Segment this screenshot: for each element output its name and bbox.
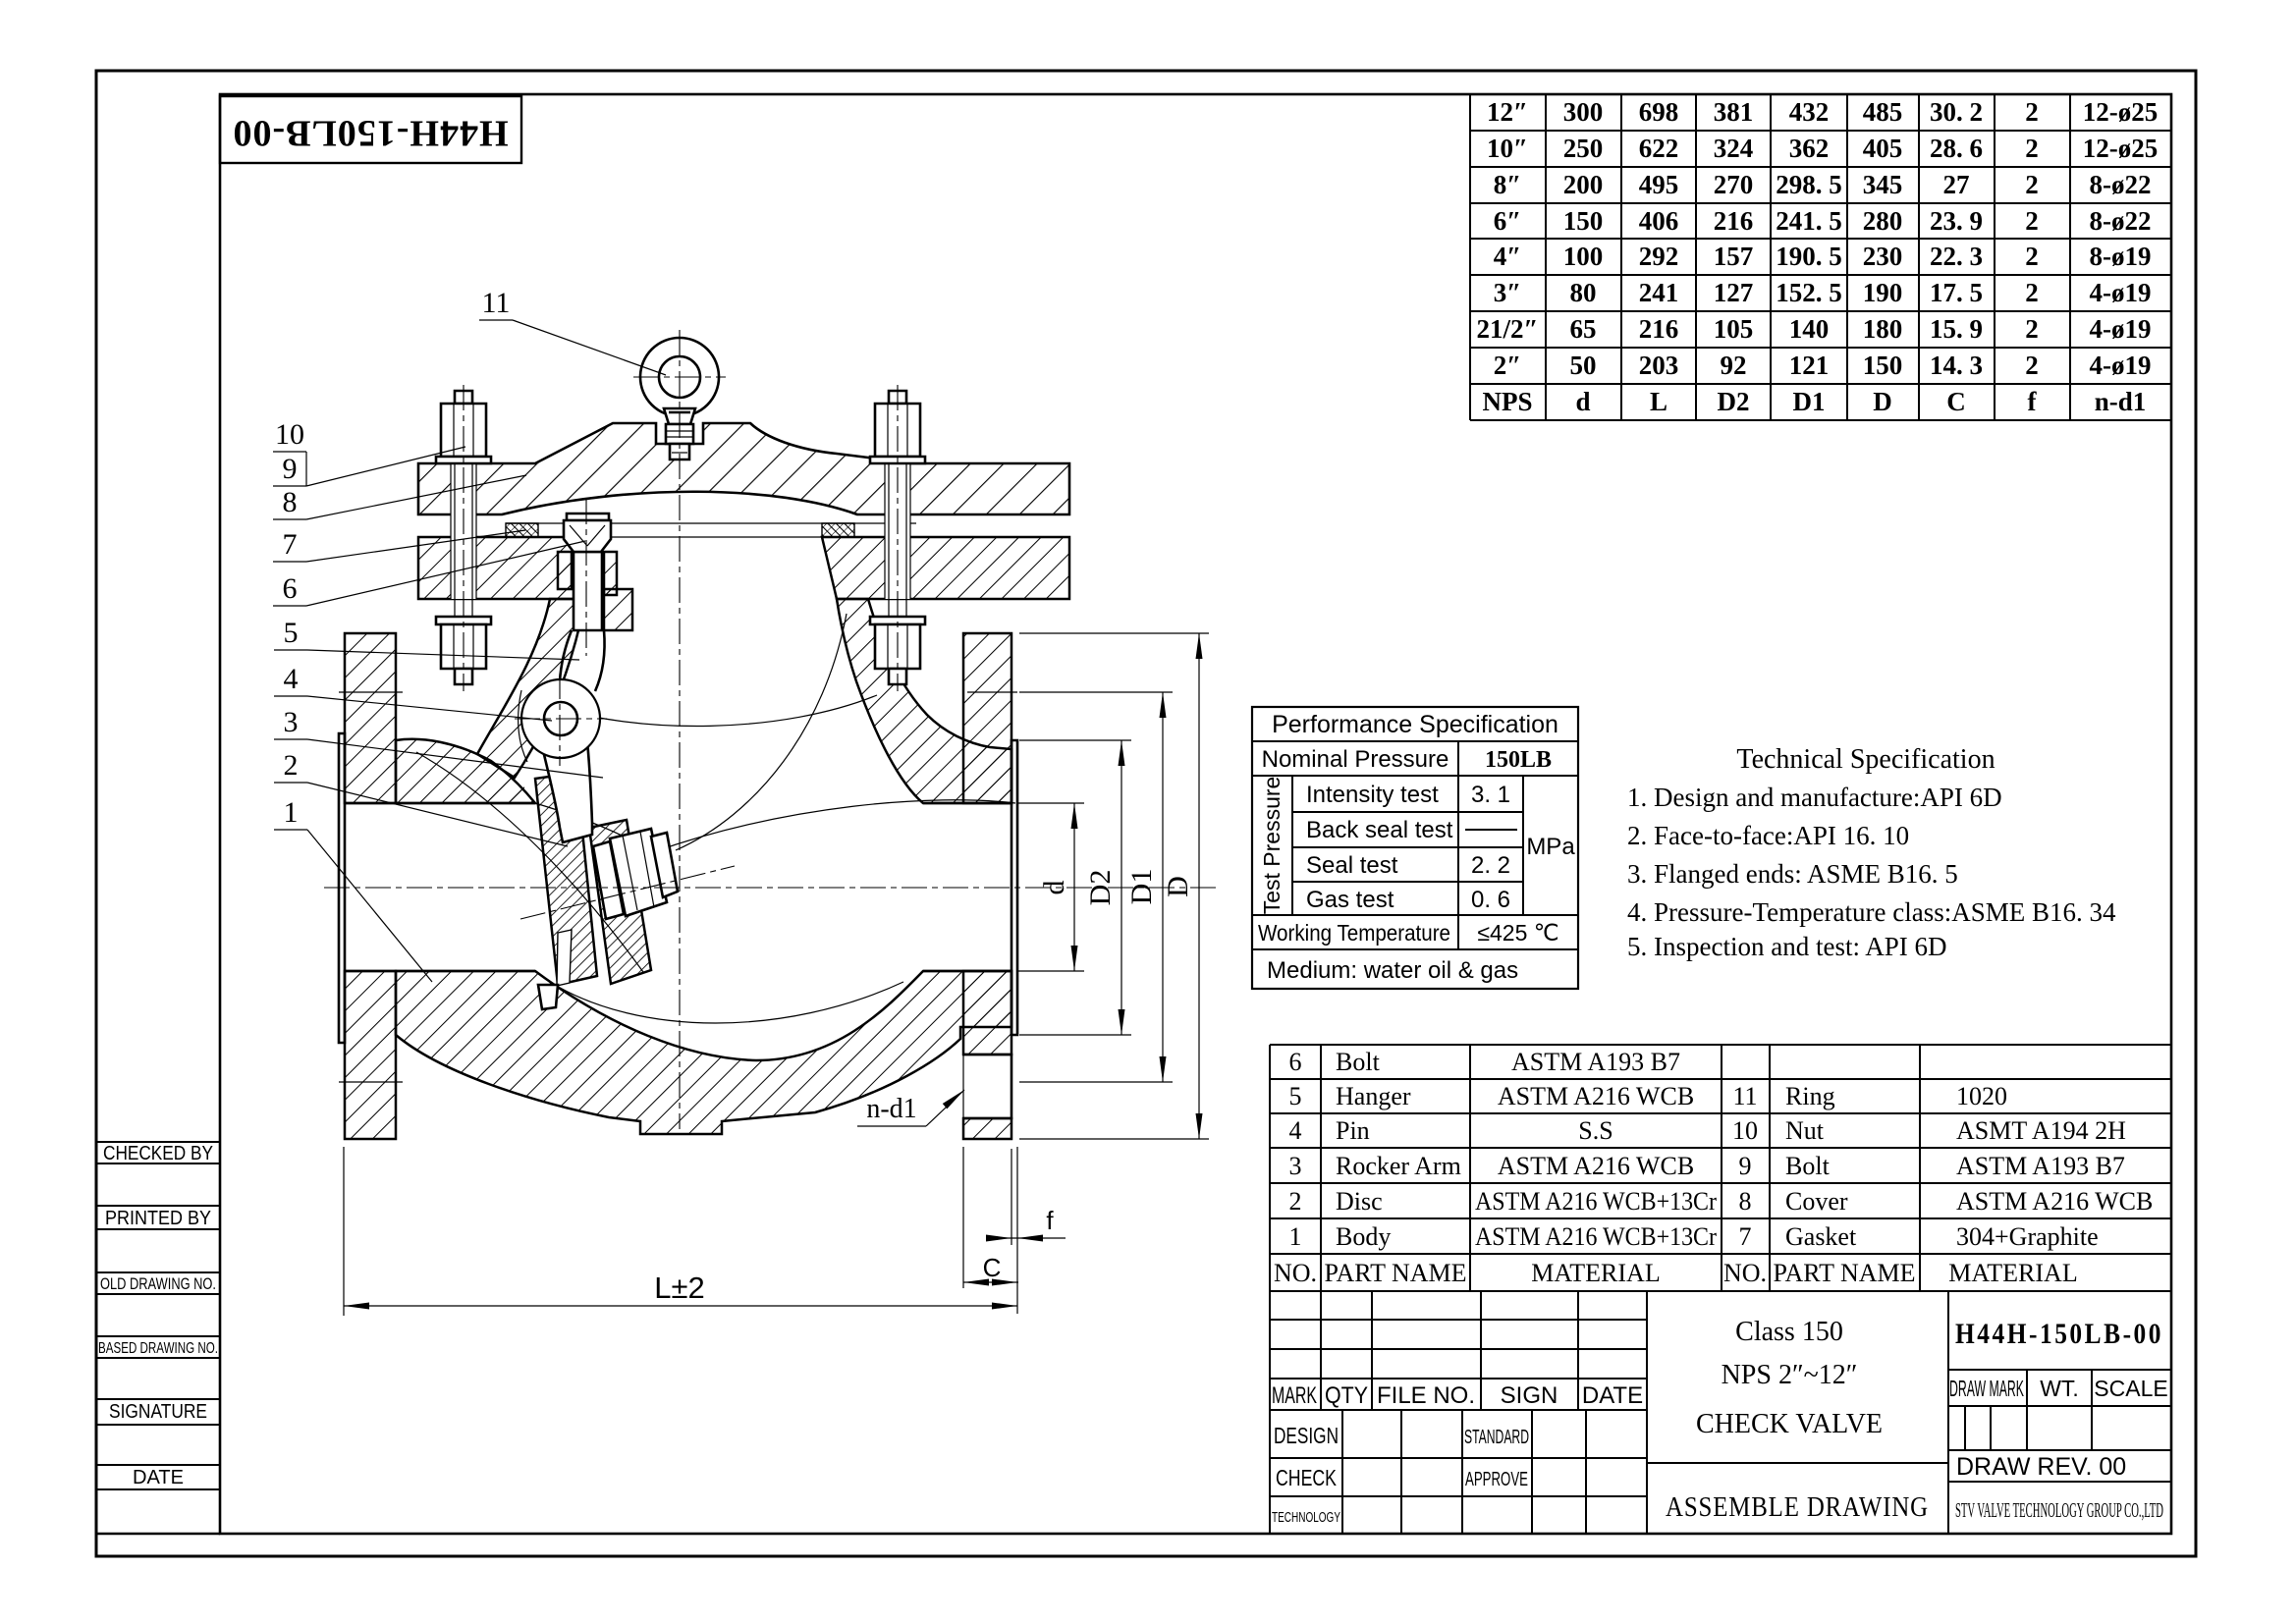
svg-text:Rocker Arm: Rocker Arm — [1336, 1152, 1461, 1180]
eye ring horizontal centerline — [633, 376, 726, 378]
svg-text:H44H-150LB-00: H44H-150LB-00 — [232, 112, 508, 153]
left flange raised face lip — [339, 733, 345, 1043]
svg-text:9: 9 — [1739, 1152, 1752, 1180]
svg-text:200: 200 — [1563, 170, 1604, 199]
svg-text:6: 6 — [283, 572, 298, 605]
left bolt axis centerline — [463, 385, 465, 691]
svg-text:80: 80 — [1570, 278, 1597, 307]
svg-text:QTY: QTY — [1325, 1382, 1368, 1409]
svg-text:10: 10 — [1732, 1116, 1758, 1145]
right neck wall + hub — [837, 599, 1011, 803]
svg-text:Disc: Disc — [1336, 1187, 1383, 1216]
svg-text:4: 4 — [1289, 1116, 1302, 1145]
svg-text:MATERIAL: MATERIAL — [1948, 1259, 2077, 1287]
svg-text:406: 406 — [1639, 206, 1679, 236]
svg-text:4″: 4″ — [1494, 242, 1521, 271]
dim d extension lines — [1017, 802, 1084, 804]
disc back plate — [535, 773, 597, 985]
svg-text:3. 1: 3. 1 — [1471, 782, 1510, 808]
svg-text:2: 2 — [2025, 242, 2039, 271]
pipe axis centerline — [324, 887, 1218, 889]
svg-text:CHECKED BY: CHECKED BY — [103, 1143, 213, 1164]
dim f — [1011, 1149, 1012, 1245]
hinge stud — [574, 552, 602, 630]
svg-text:11: 11 — [1732, 1082, 1757, 1110]
disc nut — [610, 829, 667, 916]
svg-text:21/2″: 21/2″ — [1477, 314, 1539, 344]
svg-text:7: 7 — [1739, 1222, 1752, 1251]
svg-text:2. 2: 2. 2 — [1471, 852, 1510, 879]
svg-text:2: 2 — [2025, 278, 2039, 307]
body top flange band right — [822, 537, 1069, 599]
svg-text:2: 2 — [2025, 206, 2039, 236]
svg-text:D: D — [1162, 876, 1194, 897]
svg-text:Gas test: Gas test — [1306, 887, 1394, 913]
svg-text:Cover: Cover — [1785, 1187, 1848, 1216]
svg-text:ASTM A216 WCB: ASTM A216 WCB — [1498, 1152, 1694, 1180]
neck interior sweep curve — [676, 614, 847, 850]
svg-text:FILE NO.: FILE NO. — [1377, 1382, 1475, 1409]
pin (4) boss outer circle — [521, 679, 600, 758]
svg-text:APPROVE: APPROVE — [1465, 1469, 1528, 1490]
svg-text:≤425 ℃: ≤425 ℃ — [1477, 920, 1558, 946]
left flange bolt hole lines — [339, 691, 403, 693]
svg-text:11: 11 — [482, 287, 511, 319]
svg-text:PART NAME: PART NAME — [1324, 1259, 1466, 1287]
svg-text:NO.: NO. — [1723, 1259, 1767, 1287]
svg-text:6: 6 — [1289, 1048, 1302, 1076]
svg-text:2: 2 — [1289, 1187, 1302, 1216]
svg-text:4. Pressure-Temperature class: 4. Pressure-Temperature class:ASME B16. … — [1627, 897, 2116, 927]
dim D2 extension lines — [1019, 739, 1131, 741]
svg-text:MATERIAL: MATERIAL — [1531, 1259, 1660, 1287]
hanger (5) arm right edge — [595, 630, 605, 691]
svg-text:1. Design and manufacture:API: 1. Design and manufacture:API 6D — [1627, 783, 2002, 812]
svg-text:216: 216 — [1639, 314, 1679, 344]
svg-text:Seal test: Seal test — [1306, 852, 1398, 879]
left neck wall — [477, 599, 585, 778]
svg-text:65: 65 — [1570, 314, 1597, 344]
svg-text:23. 9: 23. 9 — [1930, 206, 1983, 236]
gasket (7) left cross-hatch — [506, 523, 538, 537]
svg-text:28. 6: 28. 6 — [1930, 134, 1983, 163]
svg-text:127: 127 — [1714, 278, 1754, 307]
eye ring (11) — [640, 338, 719, 416]
svg-text:Gasket: Gasket — [1785, 1222, 1857, 1251]
svg-text:Working Temperature: Working Temperature — [1258, 920, 1450, 946]
title block — [1270, 1319, 1647, 1321]
svg-text:STANDARD: STANDARD — [1464, 1427, 1529, 1448]
svg-text:Pin: Pin — [1336, 1116, 1370, 1145]
right bore top line — [923, 802, 1011, 805]
body top flange band left — [418, 537, 585, 599]
svg-text:2. Face-to-face:API 16. 10: 2. Face-to-face:API 16. 10 — [1627, 821, 1909, 850]
svg-text:NPS 2″~12″: NPS 2″~12″ — [1722, 1360, 1858, 1390]
svg-text:8″: 8″ — [1494, 170, 1521, 199]
svg-text:Bolt: Bolt — [1785, 1152, 1831, 1180]
svg-text:4: 4 — [284, 663, 299, 695]
gasket (7) seam lines — [506, 522, 916, 524]
svg-text:Bolt: Bolt — [1336, 1048, 1381, 1076]
svg-text:250: 250 — [1563, 134, 1604, 163]
svg-text:2: 2 — [284, 749, 299, 782]
svg-text:6″: 6″ — [1494, 206, 1521, 236]
svg-text:300: 300 — [1563, 97, 1604, 127]
dim D2 line — [1121, 740, 1122, 1035]
svg-text:Performance Specification: Performance Specification — [1272, 711, 1558, 738]
svg-text:50: 50 — [1570, 351, 1597, 380]
hinge stud centerline — [585, 499, 587, 656]
dim D line — [1198, 633, 1200, 1139]
svg-text:Technical Specification: Technical Specification — [1736, 744, 1995, 775]
svg-text:150LB: 150LB — [1485, 747, 1552, 773]
svg-text:S.S: S.S — [1578, 1116, 1613, 1145]
body left flange plate (1) — [345, 633, 396, 803]
svg-text:ASTM A193 B7: ASTM A193 B7 — [1511, 1048, 1680, 1076]
svg-text:D2: D2 — [1084, 870, 1117, 906]
cover (8) hatched dome — [418, 423, 1069, 514]
hanger clamp right lower block — [604, 589, 632, 630]
svg-text:100: 100 — [1563, 242, 1604, 271]
right flange bolt hole top line — [967, 691, 1017, 693]
svg-text:4-ø19: 4-ø19 — [2090, 314, 2152, 344]
svg-text:157: 157 — [1714, 242, 1754, 271]
svg-text:Class 150: Class 150 — [1735, 1317, 1843, 1347]
svg-text:5: 5 — [1289, 1082, 1302, 1110]
svg-text:2: 2 — [2025, 97, 2039, 127]
svg-text:NPS: NPS — [1482, 387, 1532, 416]
svg-text:4-ø19: 4-ø19 — [2090, 351, 2152, 380]
neck opening far-edge arc — [531, 695, 877, 727]
svg-text:9: 9 — [283, 453, 298, 485]
svg-text:d: d — [1038, 881, 1070, 895]
svg-text:D1: D1 — [1793, 387, 1826, 416]
svg-text:n-d1: n-d1 — [866, 1094, 916, 1124]
svg-text:C: C — [983, 1253, 1002, 1282]
svg-text:3. Flanged ends: ASME B16. 5: 3. Flanged ends: ASME B16. 5 — [1627, 859, 1958, 889]
right cover stud bolt (9) with nuts (10) — [885, 463, 910, 599]
left hub upper — [396, 739, 535, 803]
svg-text:150: 150 — [1863, 351, 1903, 380]
svg-text:ASMT A194 2H: ASMT A194 2H — [1956, 1116, 2126, 1145]
neck-hub filler — [477, 752, 535, 803]
svg-text:OLD DRAWING NO.: OLD DRAWING NO. — [100, 1274, 216, 1293]
svg-text:ASSEMBLE DRAWING: ASSEMBLE DRAWING — [1666, 1491, 1929, 1523]
svg-text:190: 190 — [1863, 278, 1903, 307]
hanger (5) arm left edge — [560, 630, 572, 681]
svg-text:D2: D2 — [1718, 387, 1750, 416]
svg-text:D1: D1 — [1125, 869, 1158, 905]
seat far-side curve — [653, 800, 1015, 852]
dim D1 line — [1162, 692, 1164, 1082]
svg-text:2″: 2″ — [1494, 351, 1521, 380]
svg-text:7: 7 — [283, 528, 298, 561]
svg-text:241: 241 — [1639, 278, 1679, 307]
svg-text:5: 5 — [284, 617, 299, 649]
svg-text:Body: Body — [1336, 1222, 1391, 1251]
rocker arm (3) lower limb over disc — [542, 741, 592, 842]
svg-text:Intensity test: Intensity test — [1306, 782, 1439, 808]
svg-text:Back seal test: Back seal test — [1306, 817, 1453, 843]
bowl interior flow curve — [550, 982, 903, 1023]
svg-text:203: 203 — [1639, 351, 1679, 380]
dim D extension lines — [1019, 632, 1209, 634]
svg-text:622: 622 — [1639, 134, 1679, 163]
svg-text:92: 92 — [1721, 351, 1747, 380]
svg-text:Nut: Nut — [1785, 1116, 1825, 1145]
dim C — [962, 1147, 964, 1288]
svg-text:345: 345 — [1863, 170, 1903, 199]
svg-text:5. Inspection and test: API 6: 5. Inspection and test: API 6D — [1627, 932, 1946, 961]
svg-text:ASTM A216 WCB+13Cr: ASTM A216 WCB+13Cr — [1475, 1222, 1717, 1251]
svg-text:2: 2 — [2025, 134, 2039, 163]
svg-text:140: 140 — [1789, 314, 1830, 344]
hinge bracket bolt (6) — [567, 514, 609, 520]
svg-text:8-ø22: 8-ø22 — [2090, 170, 2152, 199]
svg-text:d: d — [1575, 387, 1590, 416]
svg-text:1020: 1020 — [1956, 1082, 2007, 1110]
hanger clamp right block — [604, 552, 617, 595]
svg-text:Test Pressure: Test Pressure — [1259, 777, 1285, 915]
svg-text:DRAW REV. 00: DRAW REV. 00 — [1956, 1453, 2126, 1481]
svg-text:PRINTED BY: PRINTED BY — [105, 1208, 211, 1229]
svg-text:C: C — [1946, 387, 1966, 416]
svg-text:f: f — [2028, 387, 2038, 416]
hanger fork edge — [519, 690, 527, 762]
performance specification table — [1252, 707, 1578, 989]
svg-text:324: 324 — [1714, 134, 1754, 163]
disc washer plate — [593, 841, 624, 919]
left cover stud bolt (9) with nuts (10) — [451, 463, 476, 599]
svg-text:12″: 12″ — [1487, 97, 1528, 127]
right flange bolt hole slot — [963, 1055, 1011, 1118]
svg-text:Ring: Ring — [1785, 1082, 1835, 1110]
right bolt axis centerline — [897, 385, 899, 691]
svg-text:2: 2 — [2025, 314, 2039, 344]
svg-text:432: 432 — [1789, 97, 1830, 127]
svg-text:WT.: WT. — [2040, 1376, 2079, 1401]
svg-text:3″: 3″ — [1494, 278, 1521, 307]
left bore top line — [345, 802, 535, 805]
svg-text:292: 292 — [1639, 242, 1679, 271]
svg-text:495: 495 — [1639, 170, 1679, 199]
svg-text:12-ø25: 12-ø25 — [2083, 134, 2159, 163]
parts list table — [1270, 1044, 2171, 1046]
svg-text:2: 2 — [2025, 351, 2039, 380]
right bore bottom line — [923, 970, 1011, 973]
body bottom bowl shell — [396, 971, 1011, 1134]
left margin label column — [96, 1141, 220, 1143]
svg-text:DATE: DATE — [133, 1467, 184, 1488]
svg-text:CHECK VALVE: CHECK VALVE — [1696, 1409, 1883, 1439]
svg-text:14. 3: 14. 3 — [1930, 351, 1983, 380]
svg-text:105: 105 — [1714, 314, 1754, 344]
svg-text:Hanger: Hanger — [1336, 1082, 1411, 1110]
disc nut tip — [651, 833, 678, 897]
dim L extension lines — [343, 1147, 345, 1316]
svg-text:STV VALVE TECHNOLOGY GROUP CO.: STV VALVE TECHNOLOGY GROUP CO.,LTD — [1955, 1498, 2163, 1522]
svg-text:BASED DRAWING NO.: BASED DRAWING NO. — [98, 1340, 218, 1357]
svg-text:DRAW MARK: DRAW MARK — [1949, 1376, 2024, 1401]
svg-text:ASTM A193 B7: ASTM A193 B7 — [1956, 1152, 2125, 1180]
right flange raised face lip — [1011, 740, 1017, 1035]
svg-text:10″: 10″ — [1487, 134, 1528, 163]
svg-text:L: L — [1650, 387, 1667, 416]
disc (2) main plate — [589, 820, 651, 984]
svg-text:D: D — [1873, 387, 1892, 416]
svg-text:298. 5: 298. 5 — [1776, 170, 1842, 199]
left bore bottom line — [345, 970, 535, 973]
svg-text:ASTM A216 WCB: ASTM A216 WCB — [1498, 1082, 1694, 1110]
svg-text:4-ø19: 4-ø19 — [2090, 278, 2152, 307]
svg-text:MPa: MPa — [1526, 834, 1575, 860]
svg-text:15. 9: 15. 9 — [1930, 314, 1983, 344]
svg-text:152. 5: 152. 5 — [1776, 278, 1842, 307]
svg-text:DATE: DATE — [1582, 1382, 1643, 1409]
svg-text:3: 3 — [1289, 1152, 1302, 1180]
hanger clamp left block — [558, 552, 572, 589]
svg-text:8-ø19: 8-ø19 — [2090, 242, 2152, 271]
svg-text:27: 27 — [1943, 170, 1970, 199]
inner border frame — [220, 94, 2171, 1534]
drawing number box (rotated 180) — [220, 96, 521, 163]
left seat edge curve — [535, 803, 653, 852]
dim d line — [1073, 803, 1075, 971]
svg-text:485: 485 — [1863, 97, 1903, 127]
svg-text:270: 270 — [1714, 170, 1754, 199]
bowl inner surface curve — [416, 752, 643, 972]
svg-text:MARK: MARK — [1272, 1382, 1317, 1409]
svg-text:30. 2: 30. 2 — [1930, 97, 1983, 127]
svg-text:DESIGN: DESIGN — [1274, 1423, 1339, 1448]
svg-text:381: 381 — [1714, 97, 1754, 127]
svg-text:22. 3: 22. 3 — [1930, 242, 1983, 271]
svg-text:Nominal Pressure: Nominal Pressure — [1262, 746, 1449, 773]
svg-text:8: 8 — [1739, 1187, 1752, 1216]
svg-text:121: 121 — [1789, 351, 1830, 380]
dimension table — [1470, 93, 2171, 95]
disc seat stub — [538, 985, 558, 1009]
margin strip bottom line — [96, 1533, 220, 1536]
svg-text:Medium: water oil & gas: Medium: water oil & gas — [1267, 957, 1518, 984]
body right flange plate — [963, 633, 1011, 803]
svg-text:17. 5: 17. 5 — [1930, 278, 1983, 307]
valve vertical axis centerline — [679, 330, 681, 1129]
svg-text:n-d1: n-d1 — [2095, 387, 2147, 416]
dim L line — [344, 1305, 1017, 1307]
svg-text:3: 3 — [284, 706, 299, 738]
svg-text:PART NAME: PART NAME — [1773, 1259, 1915, 1287]
svg-text:190. 5: 190. 5 — [1776, 242, 1842, 271]
svg-text:1: 1 — [1289, 1222, 1302, 1251]
dim D1 extension lines — [1019, 691, 1173, 693]
gasket (7) right cross-hatch — [822, 523, 854, 537]
svg-text:0. 6: 0. 6 — [1471, 887, 1510, 913]
svg-text:8-ø22: 8-ø22 — [2090, 206, 2152, 236]
pin centerline cross — [515, 718, 607, 720]
svg-text:405: 405 — [1863, 134, 1903, 163]
svg-text:698: 698 — [1639, 97, 1679, 127]
svg-text:304+Graphite: 304+Graphite — [1956, 1222, 2099, 1251]
svg-text:12-ø25: 12-ø25 — [2083, 97, 2159, 127]
svg-text:280: 280 — [1863, 206, 1903, 236]
pin (4) inner circle — [544, 702, 577, 735]
disc axis centerline — [520, 866, 735, 919]
svg-text:362: 362 — [1789, 134, 1830, 163]
svg-text:1: 1 — [284, 796, 299, 829]
svg-text:230: 230 — [1863, 242, 1903, 271]
svg-text:2: 2 — [2025, 170, 2039, 199]
svg-text:8: 8 — [283, 486, 298, 518]
svg-text:10: 10 — [275, 418, 304, 451]
svg-text:H44H-150LB-00: H44H-150LB-00 — [1955, 1318, 2163, 1350]
svg-text:216: 216 — [1714, 206, 1754, 236]
svg-text:ASTM A216 WCB+13Cr: ASTM A216 WCB+13Cr — [1475, 1187, 1717, 1216]
svg-text:L±2: L±2 — [654, 1271, 705, 1305]
svg-text:180: 180 — [1863, 314, 1903, 344]
svg-text:f: f — [1046, 1206, 1054, 1235]
svg-text:SIGNATURE: SIGNATURE — [109, 1401, 207, 1423]
svg-text:ASTM A216 WCB: ASTM A216 WCB — [1956, 1187, 2153, 1216]
svg-text:NO.: NO. — [1274, 1259, 1317, 1287]
svg-text:241. 5: 241. 5 — [1776, 206, 1842, 236]
svg-text:TECHNOLOGY: TECHNOLOGY — [1272, 1509, 1340, 1526]
disc split notch — [557, 930, 572, 986]
svg-text:SCALE: SCALE — [2094, 1376, 2167, 1401]
svg-text:150: 150 — [1563, 206, 1604, 236]
svg-text:SIGN: SIGN — [1501, 1382, 1558, 1409]
svg-text:CHECK: CHECK — [1276, 1465, 1338, 1490]
